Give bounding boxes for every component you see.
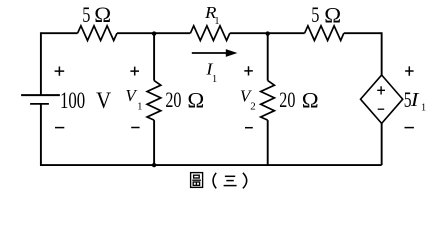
svg-text:1: 1 bbox=[421, 103, 426, 114]
svg-text:I: I bbox=[410, 88, 420, 111]
minus sign battery branch bbox=[55, 127, 64, 129]
wire right vertical upper bbox=[381, 32, 383, 75]
plus sign right of diamond bbox=[405, 66, 414, 75]
label V2 bbox=[240, 86, 256, 112]
label I1 bbox=[205, 59, 217, 85]
wire branch V1 lower bbox=[153, 120, 155, 165]
resistor 5-ohm right (top) bbox=[305, 26, 344, 41]
wire top-left horizontal bbox=[41, 32, 78, 34]
svg-text:1: 1 bbox=[137, 101, 142, 112]
svg-text:V: V bbox=[96, 88, 111, 113]
svg-text:Ω: Ω bbox=[187, 87, 204, 112]
minus sign right of diamond bbox=[405, 127, 414, 129]
minus sign inside diamond bbox=[378, 108, 385, 110]
plus sign battery branch bbox=[55, 67, 65, 76]
label V1 bbox=[125, 86, 142, 112]
caption close paren bbox=[243, 173, 247, 189]
resistor 5-ohm left (top) bbox=[78, 26, 117, 41]
node B junction dot bbox=[266, 31, 270, 35]
node A junction dot bbox=[152, 31, 156, 35]
wire left vertical lower bbox=[40, 104, 42, 166]
caption glyph tu (figure) bbox=[191, 173, 203, 188]
label 5I1 bbox=[404, 88, 426, 113]
caption glyph three bbox=[224, 176, 237, 185]
dependent source diamond 5I1 bbox=[361, 75, 403, 123]
resistor R1 (top middle) bbox=[190, 26, 229, 41]
svg-text:Ω: Ω bbox=[324, 2, 341, 27]
label R1 bbox=[204, 3, 220, 27]
wire branch V1 upper bbox=[153, 33, 155, 80]
wire left vertical upper bbox=[40, 32, 42, 95]
svg-text:1: 1 bbox=[214, 16, 219, 27]
minus sign V1 bbox=[131, 127, 139, 129]
svg-text:5: 5 bbox=[82, 4, 90, 28]
node C junction dot (bottom) bbox=[152, 163, 156, 167]
wire branch V2 upper bbox=[267, 33, 269, 80]
minus sign V2 bbox=[245, 127, 253, 129]
wire branch V2 lower bbox=[267, 120, 269, 165]
label 5 ohm (left) bbox=[82, 2, 111, 27]
battery 100V negative plate (short) bbox=[30, 103, 49, 105]
resistor 20-ohm V2 (vertical) bbox=[261, 81, 275, 121]
svg-text:1: 1 bbox=[212, 74, 217, 85]
label 20 ohm (V1) bbox=[165, 87, 204, 112]
svg-text:20: 20 bbox=[165, 89, 181, 113]
wire bottom horizontal bbox=[41, 164, 382, 166]
plus sign V2 bbox=[244, 66, 253, 75]
label 20 ohm (V2) bbox=[279, 87, 318, 112]
wire top between R1 and node B bbox=[230, 32, 305, 34]
wire top between 5-ohm and node A bbox=[117, 32, 190, 34]
svg-text:Ω: Ω bbox=[94, 2, 111, 27]
plus sign inside diamond bbox=[377, 86, 385, 94]
battery 100V positive plate (long) bbox=[21, 94, 60, 96]
wire right vertical lower bbox=[381, 123, 383, 165]
svg-text:Ω: Ω bbox=[302, 87, 319, 112]
current arrow I1 bbox=[192, 49, 238, 57]
svg-text:100: 100 bbox=[60, 89, 85, 114]
label 100 V bbox=[60, 88, 111, 114]
svg-text:20: 20 bbox=[279, 89, 295, 113]
svg-text:5: 5 bbox=[311, 4, 319, 28]
caption open paren bbox=[213, 173, 216, 189]
label 5 ohm (right) bbox=[311, 2, 341, 27]
plus sign V1 bbox=[130, 67, 139, 76]
wire top-right horizontal bbox=[344, 32, 382, 34]
resistor 20-ohm V1 (vertical) bbox=[147, 81, 161, 121]
svg-text:2: 2 bbox=[250, 101, 256, 113]
